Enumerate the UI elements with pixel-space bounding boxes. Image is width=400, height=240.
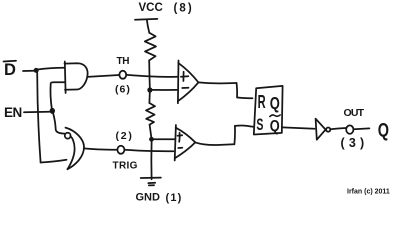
svg-text:D: D bbox=[4, 61, 16, 79]
svg-text:(2): (2) bbox=[116, 130, 134, 142]
svg-text:Q: Q bbox=[270, 118, 280, 136]
svg-text:S: S bbox=[256, 115, 263, 134]
svg-text:Q: Q bbox=[270, 94, 280, 113]
svg-text:VCC: VCC bbox=[139, 2, 163, 14]
svg-text:TRIG: TRIG bbox=[113, 161, 138, 172]
svg-text:OUT: OUT bbox=[344, 107, 365, 119]
svg-text:Q: Q bbox=[378, 120, 389, 141]
svg-text:(8): (8) bbox=[174, 3, 194, 15]
svg-text:Irfan (c) 2011: Irfan (c) 2011 bbox=[347, 188, 390, 195]
svg-text:TH: TH bbox=[117, 56, 130, 67]
svg-text:R: R bbox=[258, 92, 266, 113]
svg-text:(6): (6) bbox=[115, 84, 131, 96]
svg-text:EN: EN bbox=[4, 105, 22, 120]
svg-text:(1): (1) bbox=[166, 192, 183, 204]
svg-text:GND: GND bbox=[136, 192, 161, 204]
svg-text:(3): (3) bbox=[341, 136, 369, 150]
